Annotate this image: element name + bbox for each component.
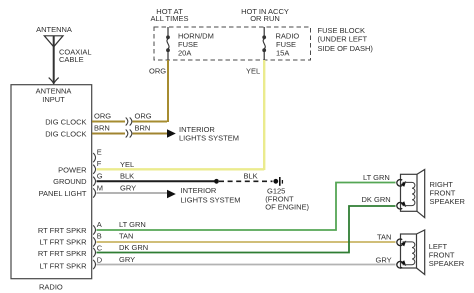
- left front speaker SP2: [397, 230, 425, 275]
- G125 label: [265, 187, 309, 212]
- svg-text:YEL: YEL: [246, 67, 260, 76]
- svg-text:GROUND: GROUND: [53, 177, 87, 186]
- svg-text:OF ENGINE): OF ENGINE): [265, 203, 309, 212]
- svg-text:ORG: ORG: [94, 112, 111, 121]
- svg-text:TAN: TAN: [377, 232, 391, 241]
- svg-text:FUSE BLOCK: FUSE BLOCK: [318, 26, 366, 35]
- svg-text:RT FRT SPKR: RT FRT SPKR: [38, 226, 87, 235]
- arrow to interior lights system 1: [167, 129, 176, 137]
- fuse block location label: [318, 26, 374, 53]
- svg-text:INTERIOR: INTERIOR: [181, 186, 217, 195]
- wire TAN left front speaker +: [97, 241, 396, 243]
- svg-text:BRN: BRN: [135, 124, 151, 133]
- radio unit box: [11, 85, 92, 279]
- svg-text:BLK: BLK: [244, 172, 258, 181]
- right front speaker label: [430, 180, 466, 206]
- wire YEL vertical from fuse F2: [263, 60, 265, 170]
- fuse F2 RADIO 15A: [262, 27, 299, 60]
- left pin labels inside radio: [38, 118, 87, 271]
- antenna input label: [36, 86, 72, 104]
- junction on BLK: [214, 179, 219, 184]
- svg-text:LT GRN: LT GRN: [363, 173, 390, 182]
- svg-text:CABLE: CABLE: [59, 55, 84, 64]
- svg-text:OR RUN: OR RUN: [250, 14, 280, 23]
- svg-text:ORG: ORG: [149, 67, 166, 76]
- antenna ANT1: [36, 25, 72, 84]
- pin G: [93, 177, 95, 186]
- svg-text:PANEL LIGHT: PANEL LIGHT: [39, 189, 87, 198]
- svg-text:LT FRT SPKR: LT FRT SPKR: [40, 261, 88, 270]
- pin F: [93, 165, 95, 174]
- wire BRN dig clock row: [92, 133, 125, 135]
- pin M: [93, 188, 95, 197]
- wire DK GRN right front speaker -: [97, 206, 396, 253]
- svg-text:ANTENNA: ANTENNA: [36, 25, 72, 34]
- ground G125 symbol: [273, 177, 282, 186]
- svg-text:20A: 20A: [178, 49, 191, 58]
- svg-text:POWER: POWER: [58, 166, 87, 175]
- wire GRY left front speaker -: [97, 264, 396, 266]
- svg-text:DK GRN: DK GRN: [119, 243, 148, 252]
- svg-text:GRY: GRY: [119, 255, 135, 264]
- svg-text:RT FRT SPKR: RT FRT SPKR: [38, 249, 87, 258]
- svg-text:15A: 15A: [276, 49, 289, 58]
- svg-text:F: F: [97, 159, 102, 168]
- svg-text:E: E: [97, 148, 102, 157]
- svg-text:DIG CLOCK: DIG CLOCK: [45, 129, 86, 138]
- pin A: [93, 225, 95, 234]
- wire LT GRN right front speaker +: [97, 183, 396, 231]
- svg-text:BRN: BRN: [94, 124, 110, 133]
- pin E: [93, 153, 95, 162]
- svg-text:LT FRT SPKR: LT FRT SPKR: [40, 238, 88, 247]
- svg-text:DK GRN: DK GRN: [362, 195, 391, 204]
- pin D: [93, 260, 95, 269]
- svg-text:RADIO: RADIO: [39, 283, 63, 292]
- svg-text:TAN: TAN: [119, 232, 133, 241]
- wire ORG dig clock row: [92, 121, 125, 123]
- wire ORG vertical from fuse F1: [167, 60, 169, 122]
- svg-text:G: G: [97, 172, 103, 181]
- svg-text:SIDE OF DASH): SIDE OF DASH): [318, 44, 374, 53]
- wire GRY panel light row: [97, 192, 168, 194]
- svg-text:ALL TIMES: ALL TIMES: [151, 14, 189, 23]
- interior lights system label 2: [181, 186, 241, 205]
- svg-text:YEL: YEL: [120, 160, 134, 169]
- coaxial cable label: [59, 48, 92, 65]
- left front speaker label: [429, 242, 465, 268]
- svg-text:INPUT: INPUT: [42, 95, 65, 104]
- hot in accy or run label: [241, 7, 289, 23]
- svg-text:(UNDER LEFT: (UNDER LEFT: [318, 35, 368, 44]
- wire YEL power row: [97, 168, 265, 170]
- svg-text:SPEAKER: SPEAKER: [430, 197, 466, 206]
- right front speaker SP1: [397, 170, 425, 218]
- hot at all times label: [151, 7, 189, 23]
- interior lights system label 1: [179, 125, 239, 143]
- svg-text:B: B: [97, 232, 102, 241]
- splice connector row1: [126, 118, 132, 126]
- svg-text:C: C: [97, 244, 103, 253]
- pin C: [93, 248, 95, 257]
- svg-text:LT GRN: LT GRN: [119, 220, 146, 229]
- arrow to interior lights system 2: [167, 190, 176, 198]
- svg-text:LIGHTS SYSTEM: LIGHTS SYSTEM: [179, 134, 239, 143]
- svg-text:LIGHTS SYSTEM: LIGHTS SYSTEM: [181, 195, 241, 204]
- pin B: [93, 237, 95, 246]
- svg-text:D: D: [97, 256, 103, 265]
- fuse block dashed box: [154, 27, 311, 60]
- svg-text:DIG CLOCK: DIG CLOCK: [45, 118, 86, 127]
- wire BLK ground row: [97, 180, 216, 182]
- svg-text:GRY: GRY: [120, 184, 136, 193]
- svg-text:A: A: [97, 220, 102, 229]
- splice connector row2: [126, 130, 132, 138]
- fuse F1 HORN/DM 20A: [166, 27, 214, 60]
- svg-text:GRY: GRY: [376, 255, 392, 264]
- svg-text:ORG: ORG: [135, 112, 152, 121]
- wire BLK dashed to ground: [219, 180, 273, 182]
- svg-text:SPEAKER: SPEAKER: [429, 259, 465, 268]
- svg-text:BLK: BLK: [120, 172, 134, 181]
- svg-text:M: M: [97, 184, 103, 193]
